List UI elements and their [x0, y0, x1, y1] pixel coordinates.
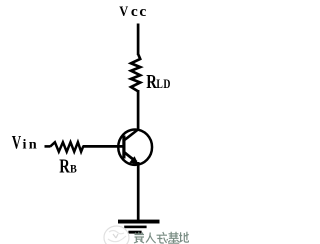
power label Vcc — [119, 3, 148, 20]
svg-text:cc: cc — [131, 4, 148, 20]
transistor Q1 (NPN) — [118, 129, 152, 164]
input label Vin — [12, 133, 39, 153]
wire RLD to collector — [137, 90, 140, 130]
svg-text:V: V — [119, 3, 128, 19]
char 5 地 — [179, 232, 189, 242]
char 1 嵌 — [134, 232, 144, 243]
ground — [118, 220, 160, 234]
watermark text 嵌入式基地 — [0, 0, 1, 1]
label RLD — [146, 71, 171, 92]
watermark logo — [104, 226, 129, 244]
svg-text:in: in — [23, 138, 40, 153]
char 3 式 — [157, 232, 168, 243]
wire emitter to ground — [137, 162, 140, 221]
svg-text:LD: LD — [156, 78, 171, 91]
wire RB to base — [83, 145, 123, 148]
wire Vin to RB — [45, 145, 51, 148]
resistor RB — [50, 142, 83, 152]
wire Vcc to RLD — [137, 24, 140, 56]
svg-text:B: B — [70, 163, 77, 176]
char 2 入 — [146, 233, 156, 244]
resistor RLD — [131, 54, 140, 92]
char 4 基 — [168, 232, 179, 243]
label RB — [59, 154, 77, 177]
svg-text:V: V — [12, 133, 22, 153]
svg-text:R: R — [59, 154, 70, 177]
